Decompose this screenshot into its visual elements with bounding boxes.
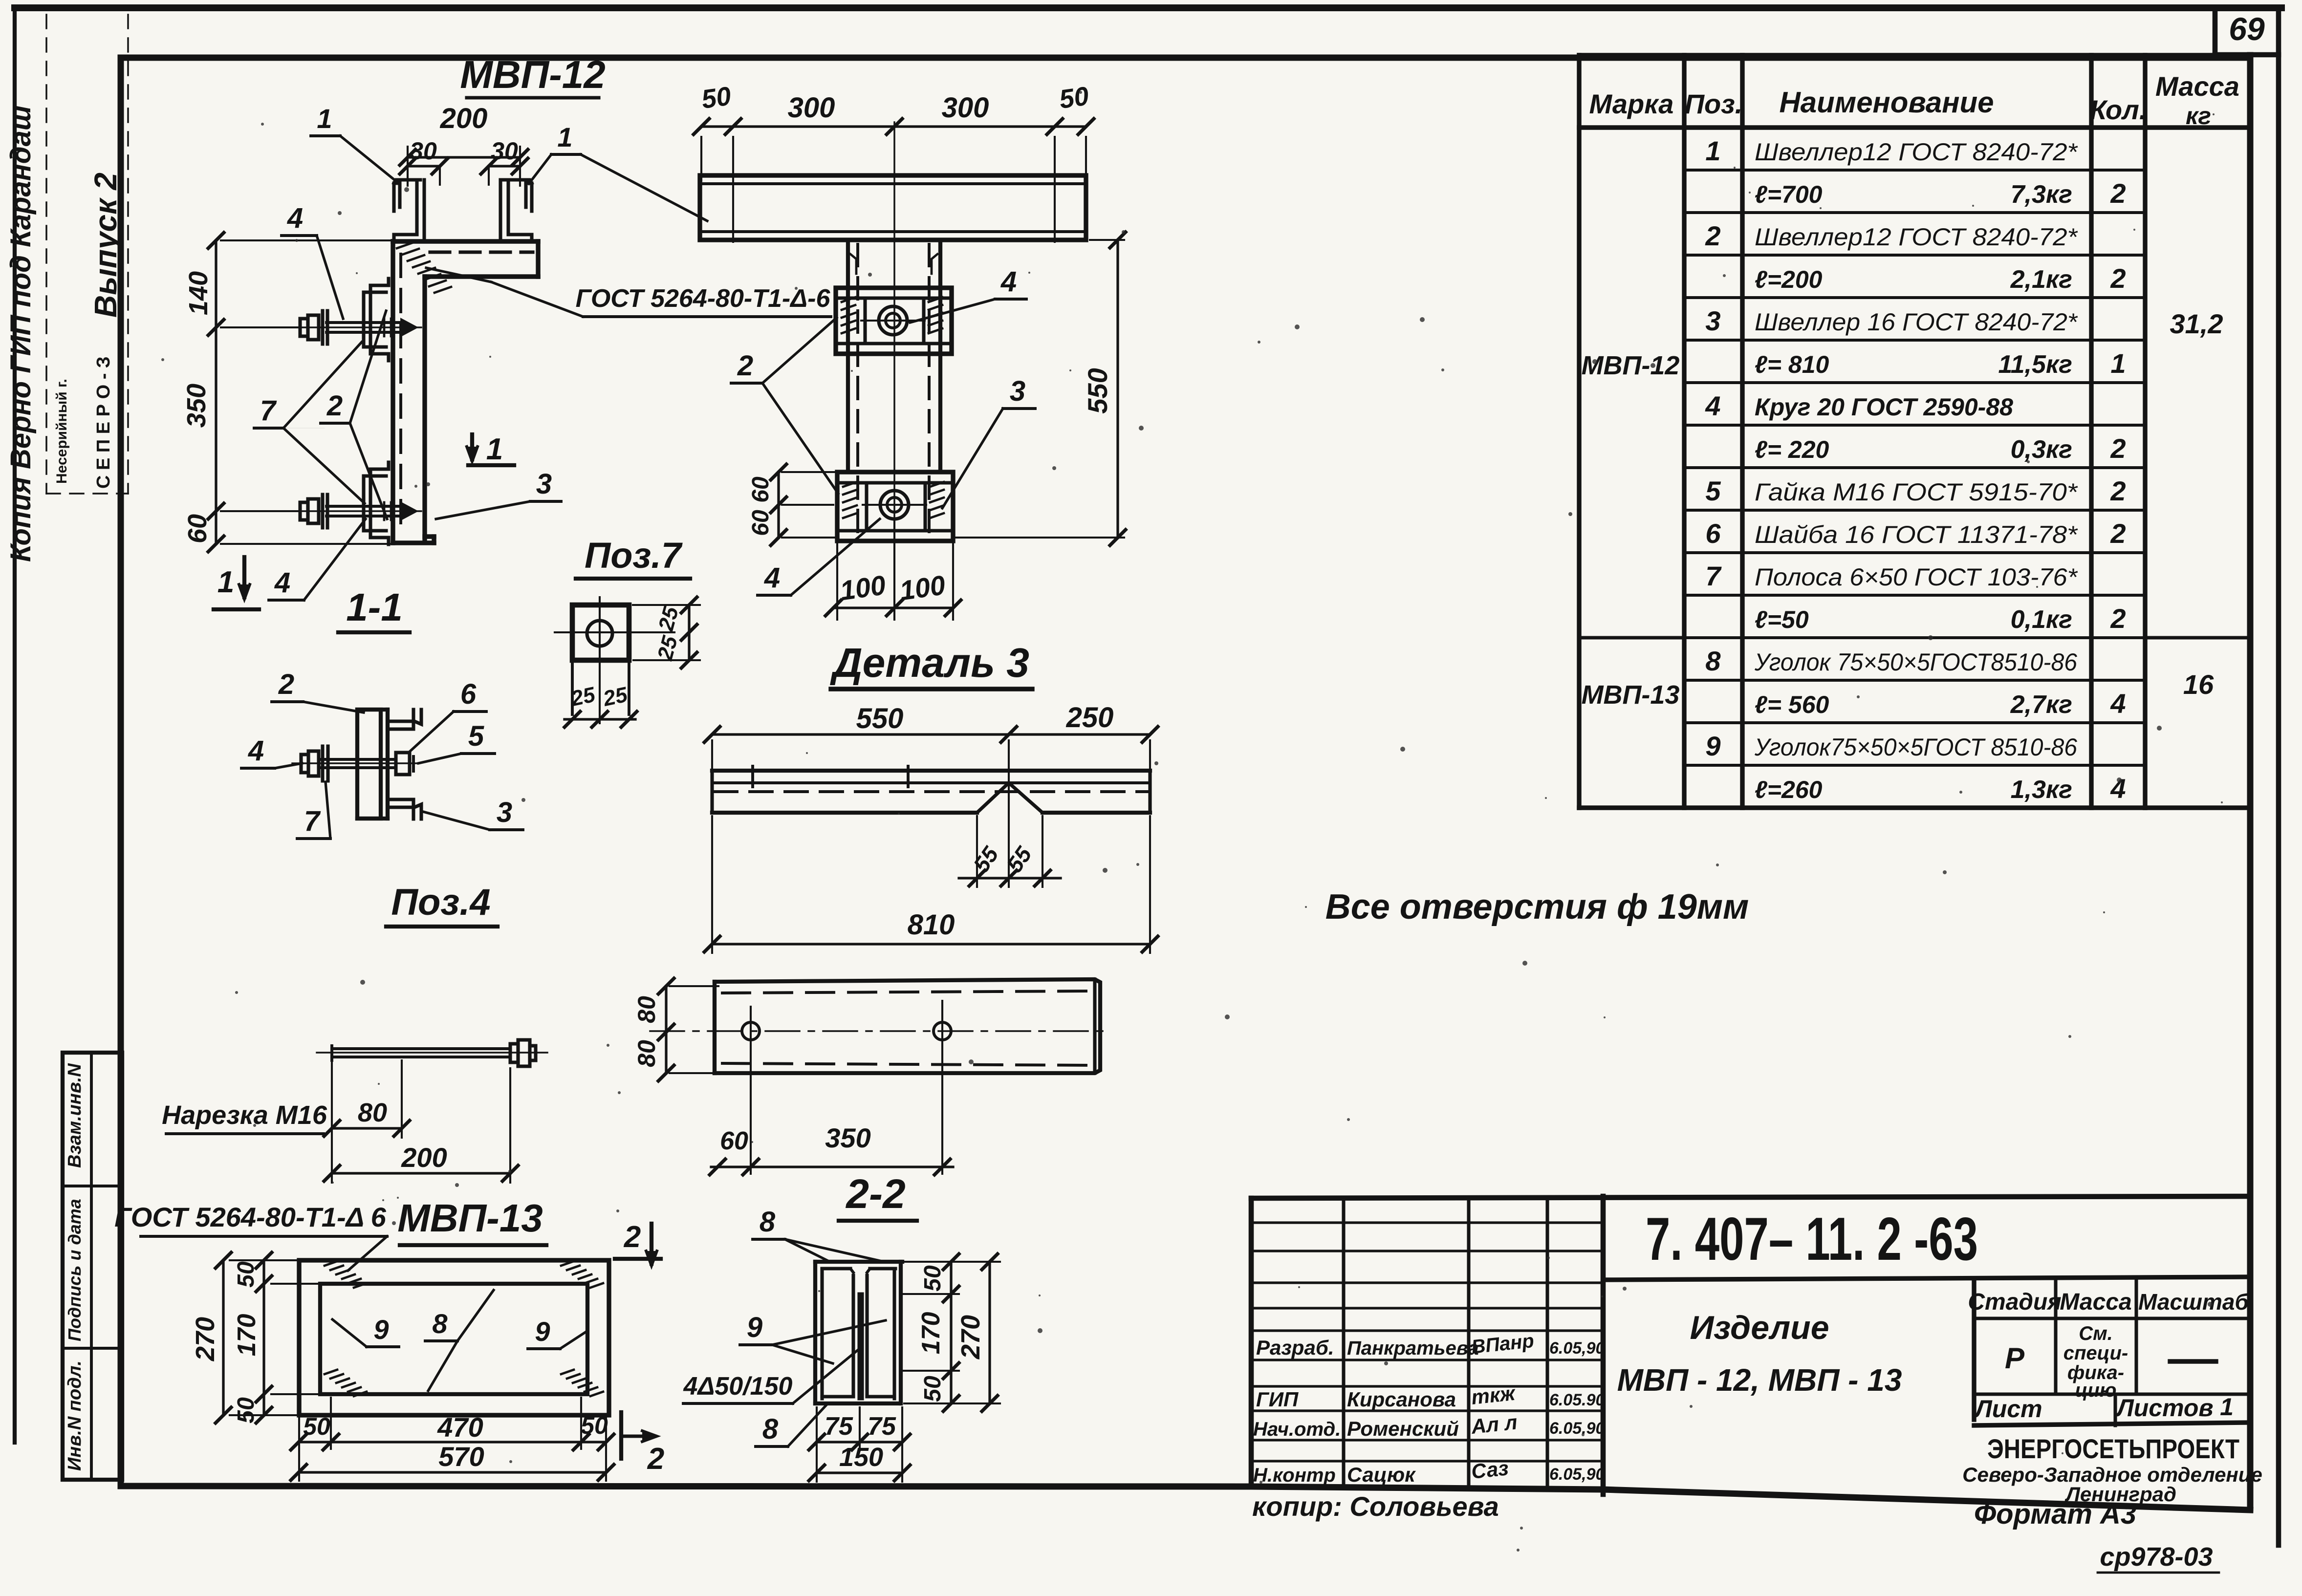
svg-text:Копия Верно ГИП под Каранд: Копия Верно ГИП под Карандаш [5, 106, 37, 562]
svg-text:Лист: Лист [1974, 1395, 2042, 1423]
svg-text:7: 7 [1705, 561, 1722, 591]
svg-text:4: 4 [2110, 773, 2126, 804]
svg-text:Кирсанова: Кирсанова [1347, 1388, 1456, 1411]
svg-text:Масштаб: Масштаб [2138, 1289, 2249, 1315]
svg-text:7: 7 [304, 805, 321, 837]
svg-text:1: 1 [1705, 135, 1720, 166]
svg-text:55: 55 [968, 841, 1004, 877]
svg-text:1: 1 [2220, 1393, 2234, 1421]
Detail 3 second view [715, 979, 1100, 1073]
svg-text:8: 8 [762, 1413, 779, 1445]
svg-text:МВП-12: МВП-12 [1582, 351, 1680, 380]
lower clamp assembly pos.2 [837, 472, 953, 541]
svg-text:Поз.: Поз. [1685, 88, 1743, 119]
bolt pos.4 lower [293, 510, 421, 512]
channel pos.3 horizontal flange (top band) [393, 239, 538, 243]
bend notch [977, 783, 1009, 813]
MVP-13 dim 570 [299, 1471, 606, 1473]
svg-text:Инв.N подл.: Инв.N подл. [65, 1360, 85, 1471]
channel piece pos.1 right (end view) [526, 183, 532, 211]
svg-text:3: 3 [536, 468, 552, 500]
notch dims 55/55 [976, 816, 978, 887]
svg-text:25: 25 [601, 683, 630, 711]
title block outer [1251, 1196, 2250, 1198]
svg-text:ℓ=200: ℓ=200 [1755, 266, 1823, 293]
svg-text:1-1: 1-1 [346, 585, 403, 629]
channel piece pos.1 left (end view) [394, 183, 400, 211]
svg-text:30: 30 [410, 137, 437, 165]
plan view top dims 50/300/300/50 [700, 137, 702, 181]
vertical channel pos.3 (plan) [846, 240, 850, 472]
svg-text:6.05.90: 6.05.90 [1549, 1391, 1605, 1409]
svg-text:6: 6 [460, 678, 477, 710]
svg-text:цию: цию [2075, 1380, 2117, 1401]
svg-text:50: 50 [1058, 81, 1091, 114]
svg-text:8: 8 [432, 1308, 448, 1339]
svg-text:ГИП: ГИП [1256, 1388, 1299, 1411]
svg-text:Ал л: Ал л [1470, 1410, 1519, 1438]
svg-text:9: 9 [1705, 731, 1720, 761]
svg-text:2: 2 [326, 390, 343, 422]
svg-text:300: 300 [942, 92, 989, 124]
svg-text:1,3кг: 1,3кг [2011, 776, 2072, 804]
svg-text:570: 570 [438, 1441, 484, 1472]
svg-text:6.05.90: 6.05.90 [1549, 1419, 1605, 1438]
svg-text:140: 140 [184, 271, 213, 315]
svg-text:Деталь 3: Деталь 3 [830, 640, 1029, 686]
svg-text:Наименование: Наименование [1779, 86, 1994, 119]
svg-text:2,7кг: 2,7кг [2010, 690, 2072, 719]
svg-text:4: 4 [2110, 688, 2126, 719]
svg-text:2: 2 [737, 350, 753, 382]
svg-text:3: 3 [1705, 305, 1720, 336]
2-2 bottom dims 75/75 [816, 1407, 818, 1482]
svg-text:150: 150 [839, 1443, 883, 1472]
svg-text:1: 1 [2110, 348, 2126, 379]
bracket pos.2 lower (end view) [370, 462, 389, 544]
dims 60 60 left of lower clamp [782, 471, 835, 473]
svg-text:16: 16 [2183, 669, 2214, 700]
svg-text:ГОСТ 5264-80-Т1-Δ-6: ГОСТ 5264-80-Т1-Δ-6 [576, 284, 831, 313]
bracket pos.2 upper (end view) [370, 279, 389, 361]
svg-text:МВП-13: МВП-13 [397, 1196, 543, 1240]
left margin stamp column [63, 1053, 122, 1480]
sign table rows [1251, 1221, 1603, 1224]
Detail 3 dims 550/250 [711, 740, 713, 777]
dims 60/350 bottom [711, 1165, 953, 1168]
svg-text:31,2: 31,2 [2170, 308, 2223, 339]
svg-text:30: 30 [491, 137, 518, 165]
svg-text:МВП - 12, МВП - 13: МВП - 12, МВП - 13 [1617, 1362, 1902, 1398]
svg-text:копир: Соловьева: копир: Соловьева [1252, 1491, 1499, 1522]
page number box 69 [2213, 8, 2218, 55]
svg-text:50: 50 [920, 1376, 946, 1402]
Poz.7 square plate with hole [572, 605, 629, 660]
svg-text:См.: См. [2079, 1323, 2113, 1344]
svg-text:7. 407– 11. 2 -63: 7. 407– 11. 2 -63 [1646, 1206, 1978, 1273]
svg-text:ГОСТ 5264-80-Т1-Δ 6: ГОСТ 5264-80-Т1-Δ 6 [114, 1202, 387, 1232]
svg-text:Шайба 16 ГОСТ 11371-78*: Шайба 16 ГОСТ 11371-78* [1755, 521, 2078, 548]
svg-text:300: 300 [788, 92, 835, 124]
svg-text:Масса: Масса [2060, 1289, 2131, 1315]
svg-text:2: 2 [2110, 518, 2126, 549]
svg-text:270: 270 [191, 1317, 220, 1361]
svg-text:ℓ= 560: ℓ= 560 [1755, 691, 1829, 718]
svg-text:ℓ= 810: ℓ= 810 [1755, 351, 1829, 378]
scan speckle noise [1441, 368, 1444, 371]
svg-text:Кол.: Кол. [2090, 94, 2147, 125]
svg-text:2-2: 2-2 [845, 1171, 905, 1217]
svg-text:ℓ=50: ℓ=50 [1755, 606, 1809, 633]
svg-text:2: 2 [278, 669, 294, 700]
svg-text:Взам.инв.N: Взам.инв.N [65, 1063, 85, 1168]
svg-text:9: 9 [373, 1314, 389, 1345]
svg-text:МВП-13: МВП-13 [1582, 680, 1680, 710]
svg-text:350: 350 [825, 1122, 870, 1153]
svg-text:50: 50 [920, 1265, 946, 1292]
svg-text:3: 3 [1010, 375, 1025, 407]
Detail 3 beam outline [712, 769, 1150, 773]
svg-text:470: 470 [437, 1412, 483, 1443]
svg-text:2: 2 [624, 1220, 641, 1254]
svg-text:Листов: Листов [2115, 1394, 2213, 1422]
svg-text:Подпись и дата: Подпись и дата [65, 1199, 85, 1341]
svg-text:100: 100 [838, 569, 888, 606]
svg-text:4: 4 [274, 567, 290, 599]
channel pos.3 vertical web [391, 241, 395, 543]
svg-text:Сацюк: Сацюк [1347, 1463, 1416, 1486]
svg-text:50: 50 [700, 81, 733, 114]
svg-text:Нач.отд.: Нач.отд. [1253, 1419, 1341, 1440]
svg-text:ВПанр: ВПанр [1470, 1330, 1535, 1358]
svg-text:9: 9 [747, 1312, 762, 1343]
Poz.4 bolt drawing [317, 1052, 547, 1054]
svg-text:55: 55 [1001, 841, 1037, 877]
svg-text:170: 170 [233, 1314, 261, 1357]
svg-text:Круг 20 ГОСТ 2590-88: Круг 20 ГОСТ 2590-88 [1755, 393, 2013, 421]
svg-text:810: 810 [908, 909, 955, 941]
svg-text:6.05,90: 6.05,90 [1549, 1465, 1605, 1484]
svg-text:4: 4 [1705, 390, 1720, 421]
2-2 I-section [815, 1260, 902, 1264]
svg-text:8: 8 [1705, 646, 1721, 676]
svg-text:550: 550 [856, 703, 904, 734]
svg-text:ЭНЕРГОСЕТЬПРОЕКТ: ЭНЕРГОСЕТЬПРОЕКТ [1987, 1433, 2239, 1464]
MVP-13 outer frame [299, 1260, 609, 1415]
svg-text:Изделие: Изделие [1690, 1309, 1829, 1346]
svg-text:200: 200 [440, 103, 488, 134]
upper clamp assembly pos.2 [836, 288, 952, 354]
2-2 dim 150 [817, 1471, 902, 1474]
svg-text:25: 25 [654, 604, 683, 634]
svg-text:Все отверстия ф 19мм: Все отверстия ф 19мм [1325, 887, 1749, 927]
dims 80/80 left [670, 985, 718, 987]
svg-text:4: 4 [248, 735, 264, 767]
svg-text:Швеллер12 ГОСТ 8240-72*: Швеллер12 ГОСТ 8240-72* [1755, 138, 2078, 166]
beam (two channels pos.1) plan [700, 175, 1086, 240]
svg-text:80: 80 [358, 1098, 387, 1127]
svg-text:80: 80 [633, 1040, 660, 1067]
svg-text:ткж: ткж [1470, 1381, 1517, 1409]
svg-text:2: 2 [2110, 178, 2126, 209]
svg-text:Швеллер12 ГОСТ 8240-72*: Швеллер12 ГОСТ 8240-72* [1755, 223, 2078, 251]
bolt pos.4 upper [293, 326, 421, 328]
MVP-13 bottom dims 50/470/50 [298, 1418, 300, 1481]
svg-text:Р: Р [2005, 1342, 2025, 1375]
svg-text:50: 50 [303, 1413, 330, 1440]
svg-text:200: 200 [401, 1142, 447, 1173]
svg-text:80: 80 [633, 996, 660, 1023]
svg-text:5: 5 [1705, 475, 1721, 506]
svg-text:550: 550 [1082, 368, 1113, 413]
left dim chain 140/350/60 [221, 239, 396, 241]
svg-text:11,5кг: 11,5кг [1998, 350, 2072, 379]
svg-text:Полоса 6×50 ГОСТ 103-76*: Полоса 6×50 ГОСТ 103-76* [1755, 563, 2078, 591]
svg-text:Стадия: Стадия [1968, 1289, 2061, 1315]
svg-text:2,1кг: 2,1кг [2010, 265, 2072, 294]
svg-text:2: 2 [1705, 220, 1720, 251]
svg-text:2: 2 [2110, 475, 2126, 506]
svg-text:270: 270 [956, 1315, 985, 1359]
svg-text:Панкратьева: Панкратьева [1347, 1337, 1479, 1359]
MVP-13 left dims [230, 1259, 313, 1261]
2-2 right dims 50/170/50 [904, 1261, 1000, 1263]
svg-text:75: 75 [825, 1412, 853, 1441]
svg-text:25: 25 [653, 633, 682, 663]
svg-text:4Δ50/150: 4Δ50/150 [683, 1372, 793, 1401]
svg-text:250: 250 [1066, 702, 1114, 733]
svg-text:69: 69 [2229, 11, 2265, 47]
svg-text:Уголок75×50×5ГОСТ 8510-86: Уголок75×50×5ГОСТ 8510-86 [1754, 733, 2077, 761]
svg-text:Н.контр: Н.контр [1253, 1465, 1336, 1486]
parts table grid [1577, 55, 1581, 808]
svg-text:Поз.7: Поз.7 [585, 535, 683, 576]
svg-text:Гайка М16 ГОСТ 5915-70*: Гайка М16 ГОСТ 5915-70* [1755, 478, 2078, 506]
Poz.7 dims right 25/25 [633, 604, 700, 606]
svg-text:7: 7 [260, 395, 277, 427]
svg-text:Формат А3: Формат А3 [1974, 1498, 2136, 1530]
1-1 central plate pos.2 [357, 710, 381, 819]
svg-text:50: 50 [581, 1412, 608, 1439]
svg-text:75: 75 [868, 1412, 896, 1441]
sign table columns [1342, 1198, 1345, 1486]
svg-text:350: 350 [182, 384, 211, 428]
svg-text:4: 4 [764, 562, 780, 594]
hole centerlines [650, 1030, 1109, 1032]
holes [742, 1022, 760, 1040]
svg-text:специ-: специ- [2063, 1342, 2128, 1364]
svg-text:60: 60 [748, 476, 774, 503]
svg-text:8: 8 [760, 1206, 776, 1238]
dims 30 30 [408, 165, 440, 167]
svg-text:Нарезка М16: Нарезка М16 [162, 1100, 327, 1130]
1-1 bottom hook [388, 804, 421, 819]
svg-text:ℓ= 220: ℓ= 220 [1755, 436, 1829, 463]
svg-text:50: 50 [233, 1397, 259, 1423]
svg-text:60: 60 [748, 510, 774, 536]
svg-text:170: 170 [917, 1312, 945, 1355]
svg-text:6: 6 [1705, 518, 1721, 549]
svg-text:Масса: Масса [2155, 71, 2239, 102]
dim 550 right [1090, 239, 1124, 241]
svg-text:2: 2 [2110, 263, 2126, 294]
svg-text:МВП-12: МВП-12 [460, 53, 606, 96]
MVP-12 side view: dim 200 top [407, 147, 409, 186]
svg-text:6.05,90: 6.05,90 [1549, 1339, 1605, 1358]
svg-text:ℓ=700: ℓ=700 [1755, 181, 1823, 208]
main drawing frame [121, 55, 2250, 61]
svg-text:Поз.4: Поз.4 [391, 882, 490, 923]
svg-text:3: 3 [497, 797, 512, 828]
sheet outer border [15, 4, 2281, 11]
svg-text:Роменский: Роменский [1347, 1417, 1459, 1440]
1-1 top hook pos.3 flange [388, 710, 421, 724]
weld hatch at corner [397, 242, 413, 248]
svg-text:9: 9 [535, 1316, 550, 1347]
section mark 1 (right) [468, 463, 514, 467]
svg-text:Разраб.: Разраб. [1256, 1336, 1334, 1359]
svg-text:60: 60 [720, 1127, 748, 1155]
svg-text:2: 2 [2110, 433, 2126, 464]
svg-text:4: 4 [287, 202, 303, 234]
list / listov row [1974, 1392, 2250, 1396]
svg-text:0,3кг: 0,3кг [2011, 435, 2072, 464]
svg-text:ℓ=260: ℓ=260 [1755, 776, 1823, 803]
svg-text:1: 1 [317, 103, 332, 134]
svg-text:5: 5 [468, 720, 484, 752]
svg-text:4: 4 [1000, 266, 1017, 298]
svg-text:7,3кг: 7,3кг [2011, 180, 2072, 209]
dim 810 [711, 816, 713, 953]
svg-text:ср978-03: ср978-03 [2100, 1542, 2213, 1572]
svg-text:0,1кг: 0,1кг [2011, 605, 2072, 634]
svg-text:50: 50 [233, 1261, 259, 1288]
Poz.7 dims bottom 25/25 [565, 718, 635, 720]
svg-text:Несерийный г.: Несерийный г. [54, 379, 70, 484]
svg-text:Марка: Марка [1589, 88, 1674, 119]
center axis vertical [893, 122, 895, 567]
svg-text:1: 1 [217, 565, 234, 599]
svg-text:Выпуск 2: Выпуск 2 [88, 173, 123, 318]
stadia massa masshtab [1974, 1316, 2250, 1320]
dims 100 100 bottom [836, 541, 838, 620]
svg-text:2: 2 [647, 1442, 664, 1476]
svg-text:60: 60 [183, 514, 212, 543]
section mark 1 (left) [214, 607, 259, 611]
svg-text:25: 25 [568, 683, 598, 711]
svg-text:1: 1 [486, 432, 503, 466]
svg-text:2: 2 [2110, 603, 2126, 634]
1-1 bolt [292, 762, 419, 764]
svg-text:Саз: Саз [1470, 1456, 1510, 1483]
svg-text:Швеллер 16 ГОСТ 8240-72*: Швеллер 16 ГОСТ 8240-72* [1755, 308, 2078, 336]
bolt head [510, 1044, 518, 1062]
Poz.4 dims [331, 1063, 333, 1183]
svg-text:С Е П Е Р О - З: С Е П Е Р О - З [93, 356, 114, 489]
svg-text:1: 1 [557, 122, 572, 152]
svg-text:кг: кг [2186, 102, 2211, 129]
svg-text:Уголок 75×50×5ГОСТ8510-86: Уголок 75×50×5ГОСТ8510-86 [1754, 648, 2077, 676]
svg-text:100: 100 [898, 569, 947, 606]
